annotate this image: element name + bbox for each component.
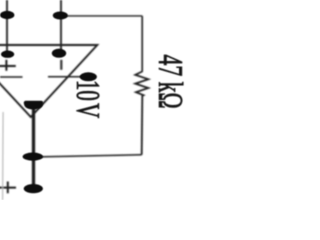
wire: feedback down to resistor — [141, 16, 143, 72]
wire: output stem (thick vertical) — [32, 106, 35, 190]
node: output terminal dot — [24, 184, 43, 193]
node: junction dot on + lead — [0, 11, 14, 19]
label: value 10 V (rotated text) — [77, 82, 100, 100]
label: + input (rotated plus) — [0, 60, 16, 71]
wire: supply lead segment b (to dot) — [48, 76, 82, 78]
node: junction dot on - lead (feedback tap) — [53, 12, 68, 20]
wire: feedback top run (horizontal) — [60, 15, 142, 17]
op-amp U1 triangle (rotated, partially cropped at left) — [0, 45, 97, 117]
label: - input (rotated minus) — [60, 60, 62, 70]
wire: non-inverting input lead (vertical, left) — [6, 0, 8, 54]
label: output + polarity — [0, 182, 16, 194]
wire: feedback bottom run to output node — [33, 155, 142, 157]
wire: inverting input lead (vertical, second) — [60, 0, 62, 53]
faint cropped line at left edge — [2, 112, 5, 200]
label: value 10 V unit letter V — [76, 103, 98, 118]
label: value 47 kOhm (rotated text) — [159, 55, 183, 108]
resistor R1 47 kOhm zigzag — [135, 72, 148, 96]
node: output junction dot — [23, 153, 43, 161]
node: 10 V supply terminal dot — [80, 72, 97, 81]
node: + input terminal dot — [1, 51, 14, 58]
wire: resistor bottom down — [141, 96, 144, 155]
output arrow blob at apex — [24, 101, 43, 110]
wire: supply lead segment a (from edge) — [0, 76, 23, 78]
node: - input terminal dot — [52, 49, 66, 58]
